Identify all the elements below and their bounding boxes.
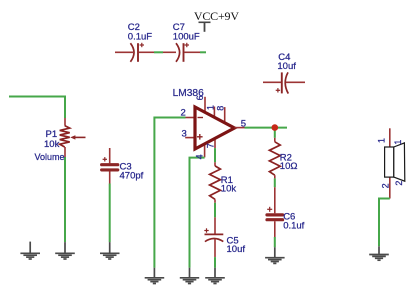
svg-text:10uf: 10uf bbox=[227, 244, 246, 255]
svg-text:10k: 10k bbox=[44, 139, 60, 150]
svg-text:4: 4 bbox=[194, 154, 204, 159]
svg-text:10Ω: 10Ω bbox=[280, 161, 298, 172]
svg-text:10uf: 10uf bbox=[277, 61, 296, 72]
svg-text:VCC+9V: VCC+9V bbox=[194, 9, 239, 23]
svg-text:10k: 10k bbox=[221, 183, 237, 194]
svg-text:1: 1 bbox=[206, 105, 216, 110]
svg-text:2: 2 bbox=[380, 183, 390, 188]
svg-text:5: 5 bbox=[241, 119, 246, 130]
svg-text:Volume: Volume bbox=[35, 152, 65, 162]
svg-text:2: 2 bbox=[394, 181, 404, 186]
svg-text:8: 8 bbox=[216, 106, 226, 111]
svg-text:2: 2 bbox=[181, 107, 186, 118]
svg-text:7: 7 bbox=[206, 143, 216, 148]
svg-text:470pf: 470pf bbox=[120, 171, 144, 182]
svg-text:0.1uF: 0.1uF bbox=[128, 31, 152, 42]
svg-text:100uF: 100uF bbox=[173, 31, 200, 42]
svg-text:3: 3 bbox=[182, 129, 187, 140]
svg-text:1: 1 bbox=[376, 138, 386, 143]
svg-text:6: 6 bbox=[195, 95, 205, 100]
svg-text:1: 1 bbox=[393, 140, 403, 145]
svg-text:0.1uf: 0.1uf bbox=[283, 220, 304, 231]
